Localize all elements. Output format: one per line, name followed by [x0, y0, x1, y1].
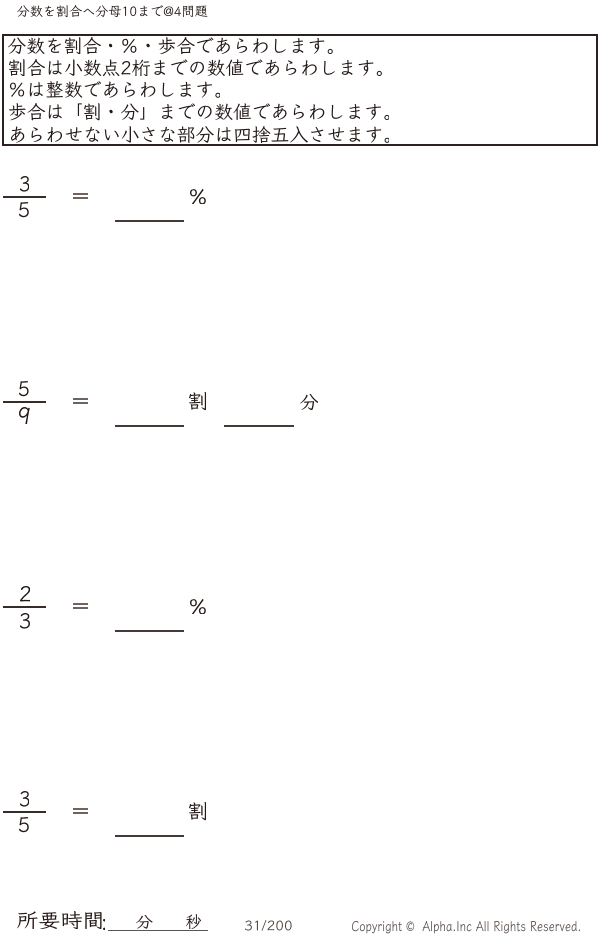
problem 4 equals top bar	[73, 808, 88, 810]
problem 1 numerator 3	[20, 176, 29, 192]
problem 4 unit 割	[189, 802, 206, 820]
instruction line 3	[10, 81, 221, 98]
footer answer line	[108, 930, 208, 932]
problem 1 percent sign	[190, 189, 206, 205]
instruction box border	[2, 34, 598, 146]
problem 2 second answer blank	[224, 425, 294, 427]
footer page number 31/200	[245, 920, 292, 931]
problem 1 equals top bar	[73, 193, 88, 195]
problem 4 numerator 3	[20, 791, 29, 807]
problem 3 equals bottom bar	[73, 607, 88, 609]
footer copyright notice	[352, 921, 580, 933]
instruction line 4	[9, 103, 390, 120]
footer label 所要時間	[17, 911, 102, 929]
problem 4 answer blank	[115, 835, 185, 837]
problem 2 unit 分	[300, 394, 319, 410]
footer unit 分	[136, 915, 153, 929]
problem 1 equals bottom bar	[73, 197, 88, 199]
problem 3 answer blank	[115, 630, 185, 632]
problem 4 denominator 5	[19, 817, 29, 832]
problem 4 equals bottom bar	[73, 812, 88, 814]
problem 2 equals top bar	[73, 398, 88, 400]
footer unit 秒	[186, 914, 201, 929]
problem 2 fraction bar	[3, 401, 46, 403]
problem 1 denominator 5	[19, 202, 29, 217]
problem 3 numerator 2	[20, 586, 31, 602]
footer colon	[103, 919, 106, 930]
problem 2 answer blank	[115, 425, 185, 427]
problem 3 denominator 3	[20, 613, 30, 629]
instruction line 5	[11, 126, 390, 143]
problem 2 equals bottom bar	[73, 402, 88, 404]
problem 2 denominator 9	[19, 407, 30, 424]
instruction line 2	[9, 59, 382, 76]
problem 1 answer blank	[115, 220, 185, 222]
problem 2 unit 割	[189, 392, 206, 410]
problem 3 percent sign	[190, 599, 206, 615]
problem 2 numerator 5	[19, 381, 29, 396]
problem 3 equals top bar	[73, 603, 88, 605]
instruction line 1	[8, 37, 333, 54]
problem 1 fraction bar	[3, 196, 46, 198]
problem 3 fraction bar	[3, 606, 46, 608]
header title 分数を割合へ分母10まで@4問題	[17, 5, 207, 17]
problem 4 fraction bar	[3, 811, 46, 813]
